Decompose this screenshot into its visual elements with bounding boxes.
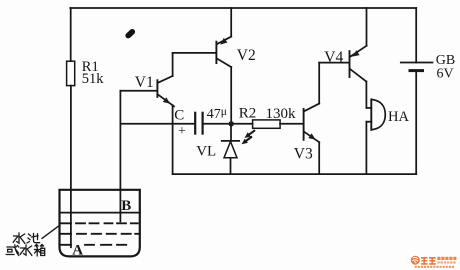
transistor V4 (350, 46, 367, 82)
wire left vertical from rail to R1 (70, 8, 72, 61)
resistor R2 (253, 120, 281, 128)
svg-text:V2: V2 (237, 47, 256, 64)
watermark small text right (437, 257, 456, 260)
svg-text:V4: V4 (324, 49, 343, 66)
svg-text:6V: 6V (437, 67, 454, 82)
label shuichi (water pool) char 1 shui (13, 233, 39, 243)
svg-text:VL: VL (196, 144, 216, 160)
wire top supply rail (70, 7, 416, 9)
transistor V3 (304, 104, 320, 143)
watermark weiku logo (411, 256, 420, 265)
wire C right plate to node (203, 123, 253, 125)
wire R1 bottom to electrode A (70, 86, 72, 248)
transistor V2 (216, 37, 231, 67)
svg-text:51k: 51k (82, 71, 105, 87)
wire VL cathode down to bottom rail (230, 158, 232, 174)
wire V3 collector up (318, 63, 320, 104)
tank dashed water row 1 (60, 222, 138, 224)
node junction dot (229, 121, 234, 126)
label huoshuixiang char 3 (xiang) (35, 244, 45, 255)
wire battery negative down to bottom rail (415, 71, 417, 175)
tank water surface line (60, 212, 140, 214)
wire V4 collector down to speaker (365, 82, 367, 108)
svg-text:R2: R2 (239, 106, 257, 122)
svg-text:B: B (121, 198, 131, 214)
capacitor C (195, 113, 202, 134)
wire bottom ground rail (173, 173, 417, 175)
battery GB (401, 63, 433, 71)
tank dashed water row 2 (60, 233, 139, 235)
svg-text:V3: V3 (294, 145, 313, 162)
wire base node to capacitor C (120, 123, 195, 125)
wire V3 emitter down to bottom rail (318, 142, 320, 174)
resistor R1 (67, 61, 75, 85)
svg-text:HA: HA (388, 109, 409, 125)
diode VL wire from node (230, 124, 232, 141)
wire electrode B vertical (119, 91, 121, 222)
label shuichi char 2 (chi) (27, 234, 40, 244)
watermark weiku text (415, 257, 457, 268)
wire speaker down to bottom rail (365, 122, 367, 174)
wire right vertical rail to battery (415, 8, 417, 63)
watermark bottom tiny text (415, 266, 454, 268)
wire V1 emitter down to bottom rail (172, 105, 174, 174)
svg-text:C: C (174, 107, 184, 123)
svg-text:A: A (72, 243, 83, 259)
label huoshuixiang char 2 (shui) (20, 245, 32, 255)
wire V2 collector down to node (230, 67, 232, 124)
wire R2 to V3 base (280, 123, 303, 125)
svg-text:GB: GB (436, 53, 455, 68)
svg-text:+: + (178, 124, 186, 139)
wire V2 emitter to top rail (230, 8, 232, 37)
svg-text:V1: V1 (135, 74, 154, 91)
photodiode VL (222, 131, 254, 158)
label huoshuixiang char 1 (huo) (6, 244, 44, 255)
svg-text:130k: 130k (266, 106, 297, 122)
wire V4 emitter to top rail (366, 8, 368, 46)
transistor V1 (157, 76, 174, 106)
wire V1 base horizontal (120, 90, 156, 92)
wire V3 collector to V4 base (319, 62, 348, 64)
water tank outline (60, 190, 140, 257)
label pointer line (42, 226, 59, 239)
wire V1 collector to V2 base (173, 52, 216, 54)
speaker HA (366, 99, 385, 129)
svg-text:47μ: 47μ (207, 106, 227, 122)
ink speck mark (128, 32, 132, 36)
wire V1 collector up (172, 53, 174, 76)
tank dashed water row 3 (60, 244, 127, 246)
